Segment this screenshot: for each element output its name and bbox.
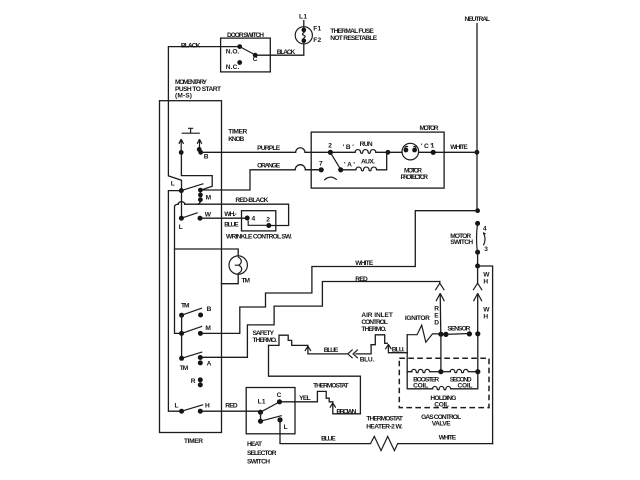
door switch bbox=[221, 32, 271, 72]
timer TM cam switch B bbox=[179, 302, 212, 317]
svg-text:H: H bbox=[483, 278, 488, 285]
svg-text:D: D bbox=[434, 320, 439, 327]
svg-text:R: R bbox=[191, 378, 196, 385]
svg-text:BLU.: BLU. bbox=[392, 347, 405, 354]
gas control valve dashed box bbox=[399, 358, 489, 407]
connector WH upper (chevron and arrow) bbox=[473, 266, 490, 334]
ignitor bbox=[405, 315, 441, 342]
air inlet control thermostat bbox=[361, 312, 393, 345]
wire BLACK door switch to timer rail bbox=[168, 42, 239, 190]
svg-text:L: L bbox=[171, 180, 175, 187]
sensor switch bbox=[438, 326, 480, 337]
svg-text:F2: F2 bbox=[313, 37, 321, 44]
svg-text:RED-BLACK: RED-BLACK bbox=[235, 197, 268, 204]
svg-text:E: E bbox=[434, 313, 439, 320]
svg-text:RED: RED bbox=[225, 403, 238, 410]
svg-text:L: L bbox=[175, 403, 179, 410]
svg-text:L1: L1 bbox=[258, 399, 266, 406]
timer contact R bbox=[191, 377, 203, 387]
svg-text:BLACK: BLACK bbox=[181, 42, 201, 49]
wire WHITE bottom run bbox=[398, 435, 493, 444]
svg-text:NEUTRAL: NEUTRAL bbox=[465, 16, 491, 23]
svg-text:ORANGE: ORANGE bbox=[257, 163, 281, 170]
svg-text:C: C bbox=[277, 392, 282, 399]
wire wh to second coil junction bbox=[477, 334, 479, 372]
wire white: motor switch to bottom white run bbox=[478, 266, 493, 444]
timer TM cam switch A bbox=[179, 333, 212, 372]
wire ORANGE timer M to motor 7 bbox=[201, 163, 321, 190]
svg-text:3: 3 bbox=[484, 246, 488, 253]
svg-text:W: W bbox=[483, 271, 490, 278]
wire RED timer H to heat selector L1 bbox=[200, 403, 260, 413]
wrinkle control switch bbox=[226, 211, 292, 241]
svg-text:1: 1 bbox=[431, 143, 435, 150]
svg-text:BLUE: BLUE bbox=[321, 436, 336, 443]
svg-text:7: 7 bbox=[319, 160, 323, 167]
svg-text:2: 2 bbox=[328, 143, 332, 150]
svg-text:TIMER: TIMER bbox=[228, 129, 247, 136]
svg-text:WH.-: WH.- bbox=[224, 211, 237, 218]
svg-text:TM: TM bbox=[181, 302, 190, 309]
svg-text:A: A bbox=[207, 361, 212, 368]
svg-text:HEATER-2 W.: HEATER-2 W. bbox=[366, 424, 403, 431]
node NEUTRAL bbox=[465, 16, 491, 23]
timer cam switch L-H bbox=[175, 402, 211, 413]
wire red stepped: TM switch A contact to red disconnect bbox=[202, 276, 439, 357]
svg-text:RUN: RUN bbox=[360, 141, 373, 148]
svg-text:R: R bbox=[434, 306, 439, 313]
svg-text:KNOB: KNOB bbox=[228, 136, 244, 143]
svg-text:L: L bbox=[284, 424, 288, 431]
label THERMAL FUSE NOT RESETABLE bbox=[330, 28, 377, 42]
svg-text:NOT RESETABLE: NOT RESETABLE bbox=[330, 35, 377, 42]
label GAS CONTROL VALVE bbox=[421, 414, 461, 428]
motor box bbox=[311, 125, 444, 188]
svg-text:HEAT: HEAT bbox=[247, 441, 262, 448]
heat selector switch bbox=[246, 388, 295, 434]
svg-text:WHITE: WHITE bbox=[439, 435, 457, 442]
svg-text:4: 4 bbox=[483, 226, 487, 233]
wire thermostat loop to safety thermo bbox=[269, 345, 361, 413]
svg-text:N.C.: N.C. bbox=[226, 64, 240, 71]
svg-text:TM: TM bbox=[180, 365, 189, 372]
svg-text:H: H bbox=[483, 313, 488, 320]
svg-text:BLUE: BLUE bbox=[324, 347, 339, 354]
label TIMER bbox=[184, 438, 203, 445]
svg-text:WHITE: WHITE bbox=[355, 260, 374, 267]
booster coil bbox=[407, 353, 443, 390]
wire BLACK fuse to door switch C bbox=[255, 44, 304, 56]
svg-text:VALVE: VALVE bbox=[432, 421, 452, 428]
svg-text:B: B bbox=[204, 154, 209, 161]
timer box bbox=[160, 101, 222, 433]
svg-text:B: B bbox=[207, 306, 212, 313]
svg-text:PROTECTOR: PROTECTOR bbox=[401, 174, 429, 181]
svg-text:H: H bbox=[205, 402, 210, 409]
svg-text:THERMO.: THERMO. bbox=[361, 326, 386, 333]
thermostat bbox=[280, 383, 349, 402]
svg-text:BLACK: BLACK bbox=[277, 49, 296, 56]
svg-text:M: M bbox=[206, 194, 212, 201]
timer motor TM bbox=[175, 249, 251, 285]
label HEAT SELECTOR SWITCH bbox=[247, 441, 277, 465]
wire L contact down to W switch and left rail stub bbox=[168, 191, 181, 412]
svg-text:C: C bbox=[253, 56, 258, 63]
connector arrow air inlet BLU. bbox=[385, 335, 407, 354]
svg-text:2: 2 bbox=[266, 216, 270, 223]
svg-text:CONTROL: CONTROL bbox=[361, 319, 388, 326]
connector RED (chevron and arrow) bbox=[434, 282, 444, 335]
connector arrow safety thermo BLUE bbox=[305, 346, 347, 354]
thermal fuse F1-F2 bbox=[295, 25, 321, 44]
svg-text:(M-S): (M-S) bbox=[175, 93, 192, 100]
svg-text:4: 4 bbox=[252, 216, 256, 223]
wire PURPLE timer B to motor 2 bbox=[201, 145, 331, 152]
timer cam switch L-W bbox=[179, 211, 212, 231]
svg-text:N.O.: N.O. bbox=[226, 48, 240, 55]
svg-text:SELECTOR: SELECTOR bbox=[247, 450, 277, 457]
wire RED-BLACK M contact to wrinkle control 2 bbox=[175, 197, 289, 333]
svg-text:F1: F1 bbox=[313, 25, 321, 32]
wire white stepped: TM switch M contact to neutral junction bbox=[202, 211, 476, 334]
motor terminal 7 'A' and AUX winding bbox=[305, 153, 386, 180]
motor switch 4-3 bbox=[450, 221, 488, 269]
svg-text:W: W bbox=[483, 306, 490, 313]
svg-text:BLUE: BLUE bbox=[224, 222, 239, 229]
svg-text:TIMER: TIMER bbox=[184, 438, 203, 445]
svg-text:THERMO.: THERMO. bbox=[253, 337, 278, 344]
wire BLUE heat selector L to bottom run bbox=[280, 420, 371, 444]
holding coil bbox=[407, 372, 478, 409]
svg-text:SENSOR: SENSOR bbox=[447, 326, 470, 333]
svg-text:YEL: YEL bbox=[299, 395, 311, 402]
svg-text:AIR INLET: AIR INLET bbox=[361, 312, 393, 319]
svg-text:IGNITOR: IGNITOR bbox=[405, 315, 430, 322]
second coil bbox=[441, 369, 481, 389]
motor protector bbox=[401, 143, 429, 181]
svg-text:MOTOR: MOTOR bbox=[420, 125, 439, 132]
svg-text:WRINKLE CONTROL SW.: WRINKLE CONTROL SW. bbox=[226, 233, 292, 240]
svg-text:COIL: COIL bbox=[434, 401, 449, 408]
connector BROWN arrow bbox=[330, 403, 361, 415]
svg-text:W: W bbox=[205, 211, 212, 218]
motor terminal 'C' 1 to WHITE bbox=[388, 143, 477, 155]
svg-text:M: M bbox=[205, 325, 211, 332]
svg-text:BLU.: BLU. bbox=[360, 356, 375, 363]
svg-text:TM: TM bbox=[242, 278, 251, 285]
wire momentary contact to M contact bbox=[181, 152, 212, 190]
svg-text:SWITCH: SWITCH bbox=[247, 459, 270, 466]
svg-text:PURPLE: PURPLE bbox=[257, 145, 281, 152]
timer cam switch L-M bbox=[171, 180, 212, 202]
push-to-start switch M-S bbox=[179, 128, 209, 160]
svg-text:THERMOSTAT: THERMOSTAT bbox=[366, 416, 403, 423]
svg-text:AUX.: AUX. bbox=[361, 158, 375, 165]
safety thermostat bbox=[253, 330, 308, 345]
thermostat heater 2W resistor bbox=[366, 416, 403, 451]
timer TM cam switch M bbox=[179, 315, 211, 336]
wire WH-BLUE W contact to wrinkle control 4 bbox=[200, 211, 247, 228]
wire neutral rail bbox=[475, 24, 481, 214]
svg-text:RED: RED bbox=[355, 276, 368, 283]
svg-text:L1: L1 bbox=[299, 13, 307, 20]
label MOMENTARY PUSH TO START (M-S) bbox=[175, 79, 221, 99]
node L1 bbox=[299, 13, 307, 27]
svg-text:SWITCH: SWITCH bbox=[450, 239, 473, 246]
svg-text:L: L bbox=[179, 224, 183, 231]
connector double chevron BLU. bbox=[348, 345, 375, 364]
svg-text:THERMOSTAT: THERMOSTAT bbox=[313, 383, 349, 390]
svg-text:WHITE: WHITE bbox=[450, 144, 468, 151]
motor terminal 2 'B' and RUN winding bbox=[328, 141, 391, 155]
wire red to booster coil junction bbox=[440, 334, 442, 372]
label TIMER KNOB bbox=[228, 129, 247, 143]
svg-text:BROWN: BROWN bbox=[336, 408, 356, 415]
